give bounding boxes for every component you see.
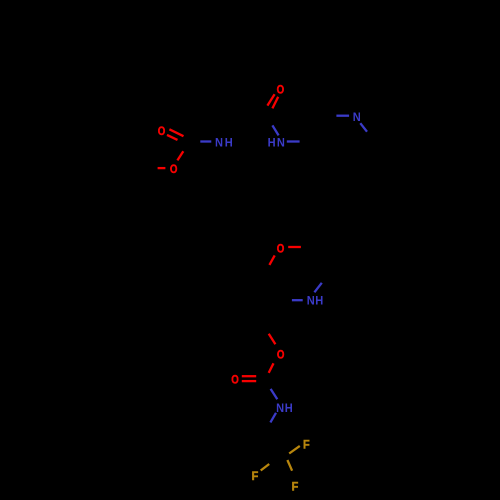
atom O16 carbonyl oxygen of bottom carbamate: [231, 374, 239, 387]
atom O4 ester oxygen of left carbamate: [170, 163, 178, 176]
svg-text:N: N: [307, 294, 315, 308]
bond C19-F22 fluorine half: [287, 460, 292, 471]
svg-text:N: N: [215, 136, 223, 150]
svg-text:N: N: [353, 110, 361, 124]
bond C15-N17 nitrogen half: [271, 389, 278, 399]
atom N3 label NH of left carbamate: [215, 136, 223, 150]
svg-text:O: O: [277, 242, 285, 255]
svg-text:O: O: [170, 163, 178, 176]
svg-text:O: O: [277, 348, 285, 361]
bond O6=C7 double bond line 2: [267, 94, 274, 105]
bond C19-F21 fluorine half: [261, 464, 270, 471]
bond C-N12 nitrogen half up-right: [314, 283, 321, 293]
bond O14-C15 oxygen half: [269, 363, 274, 373]
bond C13-O14 methyl-to-oxygen half: [269, 334, 276, 345]
bond C2-O4 oxygen half: [177, 151, 183, 160]
bond O1=C2 double bond line 2: [167, 135, 178, 140]
bond O11-C oxygen half down-left: [269, 255, 274, 265]
svg-text:N: N: [277, 136, 285, 150]
svg-text:O: O: [231, 374, 239, 387]
bond N10-C nitrogen half down-right: [360, 123, 367, 132]
bond O16=C15 double bond line 1: [242, 375, 256, 377]
svg-text:H: H: [315, 294, 323, 308]
atom O14 ester oxygen of bottom carbamate: [277, 348, 285, 361]
atom N8 label HN of top amide: [268, 136, 276, 150]
svg-text:H: H: [225, 136, 233, 150]
svg-text:O: O: [158, 125, 166, 138]
bond C2-N3 nitrogen half: [200, 140, 211, 142]
bond C7-N8 nitrogen half: [272, 125, 278, 135]
bond N17-C18 nitrogen half: [270, 413, 276, 423]
svg-text:N: N: [276, 401, 284, 415]
svg-text:F: F: [303, 438, 310, 452]
svg-text:F: F: [252, 469, 259, 483]
atom N12 label NH of morpholine: [307, 294, 315, 308]
atom F22 fluorine bottom: [292, 480, 299, 494]
bond O1=C2 double bond line 1: [169, 129, 183, 136]
atom O6 carbonyl oxygen of top amide: [277, 83, 285, 96]
bond N12-C nitrogen half left: [292, 299, 303, 301]
bond N8-C9 nitrogen half: [287, 140, 300, 142]
atom O1 carbonyl oxygen of left carbamate: [158, 125, 166, 138]
atom F20 fluorine top-right: [303, 438, 310, 452]
svg-text:H: H: [268, 136, 276, 150]
bond O16=C15 double bond line 2: [242, 380, 256, 382]
bond O6=C7 double bond line 1: [272, 97, 278, 109]
svg-text:O: O: [277, 83, 285, 96]
bond O4-C5 methyl half: [158, 167, 166, 169]
svg-text:F: F: [292, 480, 299, 494]
bond C-N10 nitrogen half left: [336, 115, 349, 117]
bond C19-F20 fluorine half: [289, 446, 300, 454]
svg-text:H: H: [285, 401, 293, 415]
atom N10 amine nitrogen: [353, 110, 361, 124]
atom N17 label NH of bottom carbamate: [276, 401, 284, 415]
atom F21 fluorine left: [252, 469, 259, 483]
bond O11-C oxygen half right: [288, 246, 301, 248]
atom O11 morpholine oxygen: [277, 242, 285, 255]
